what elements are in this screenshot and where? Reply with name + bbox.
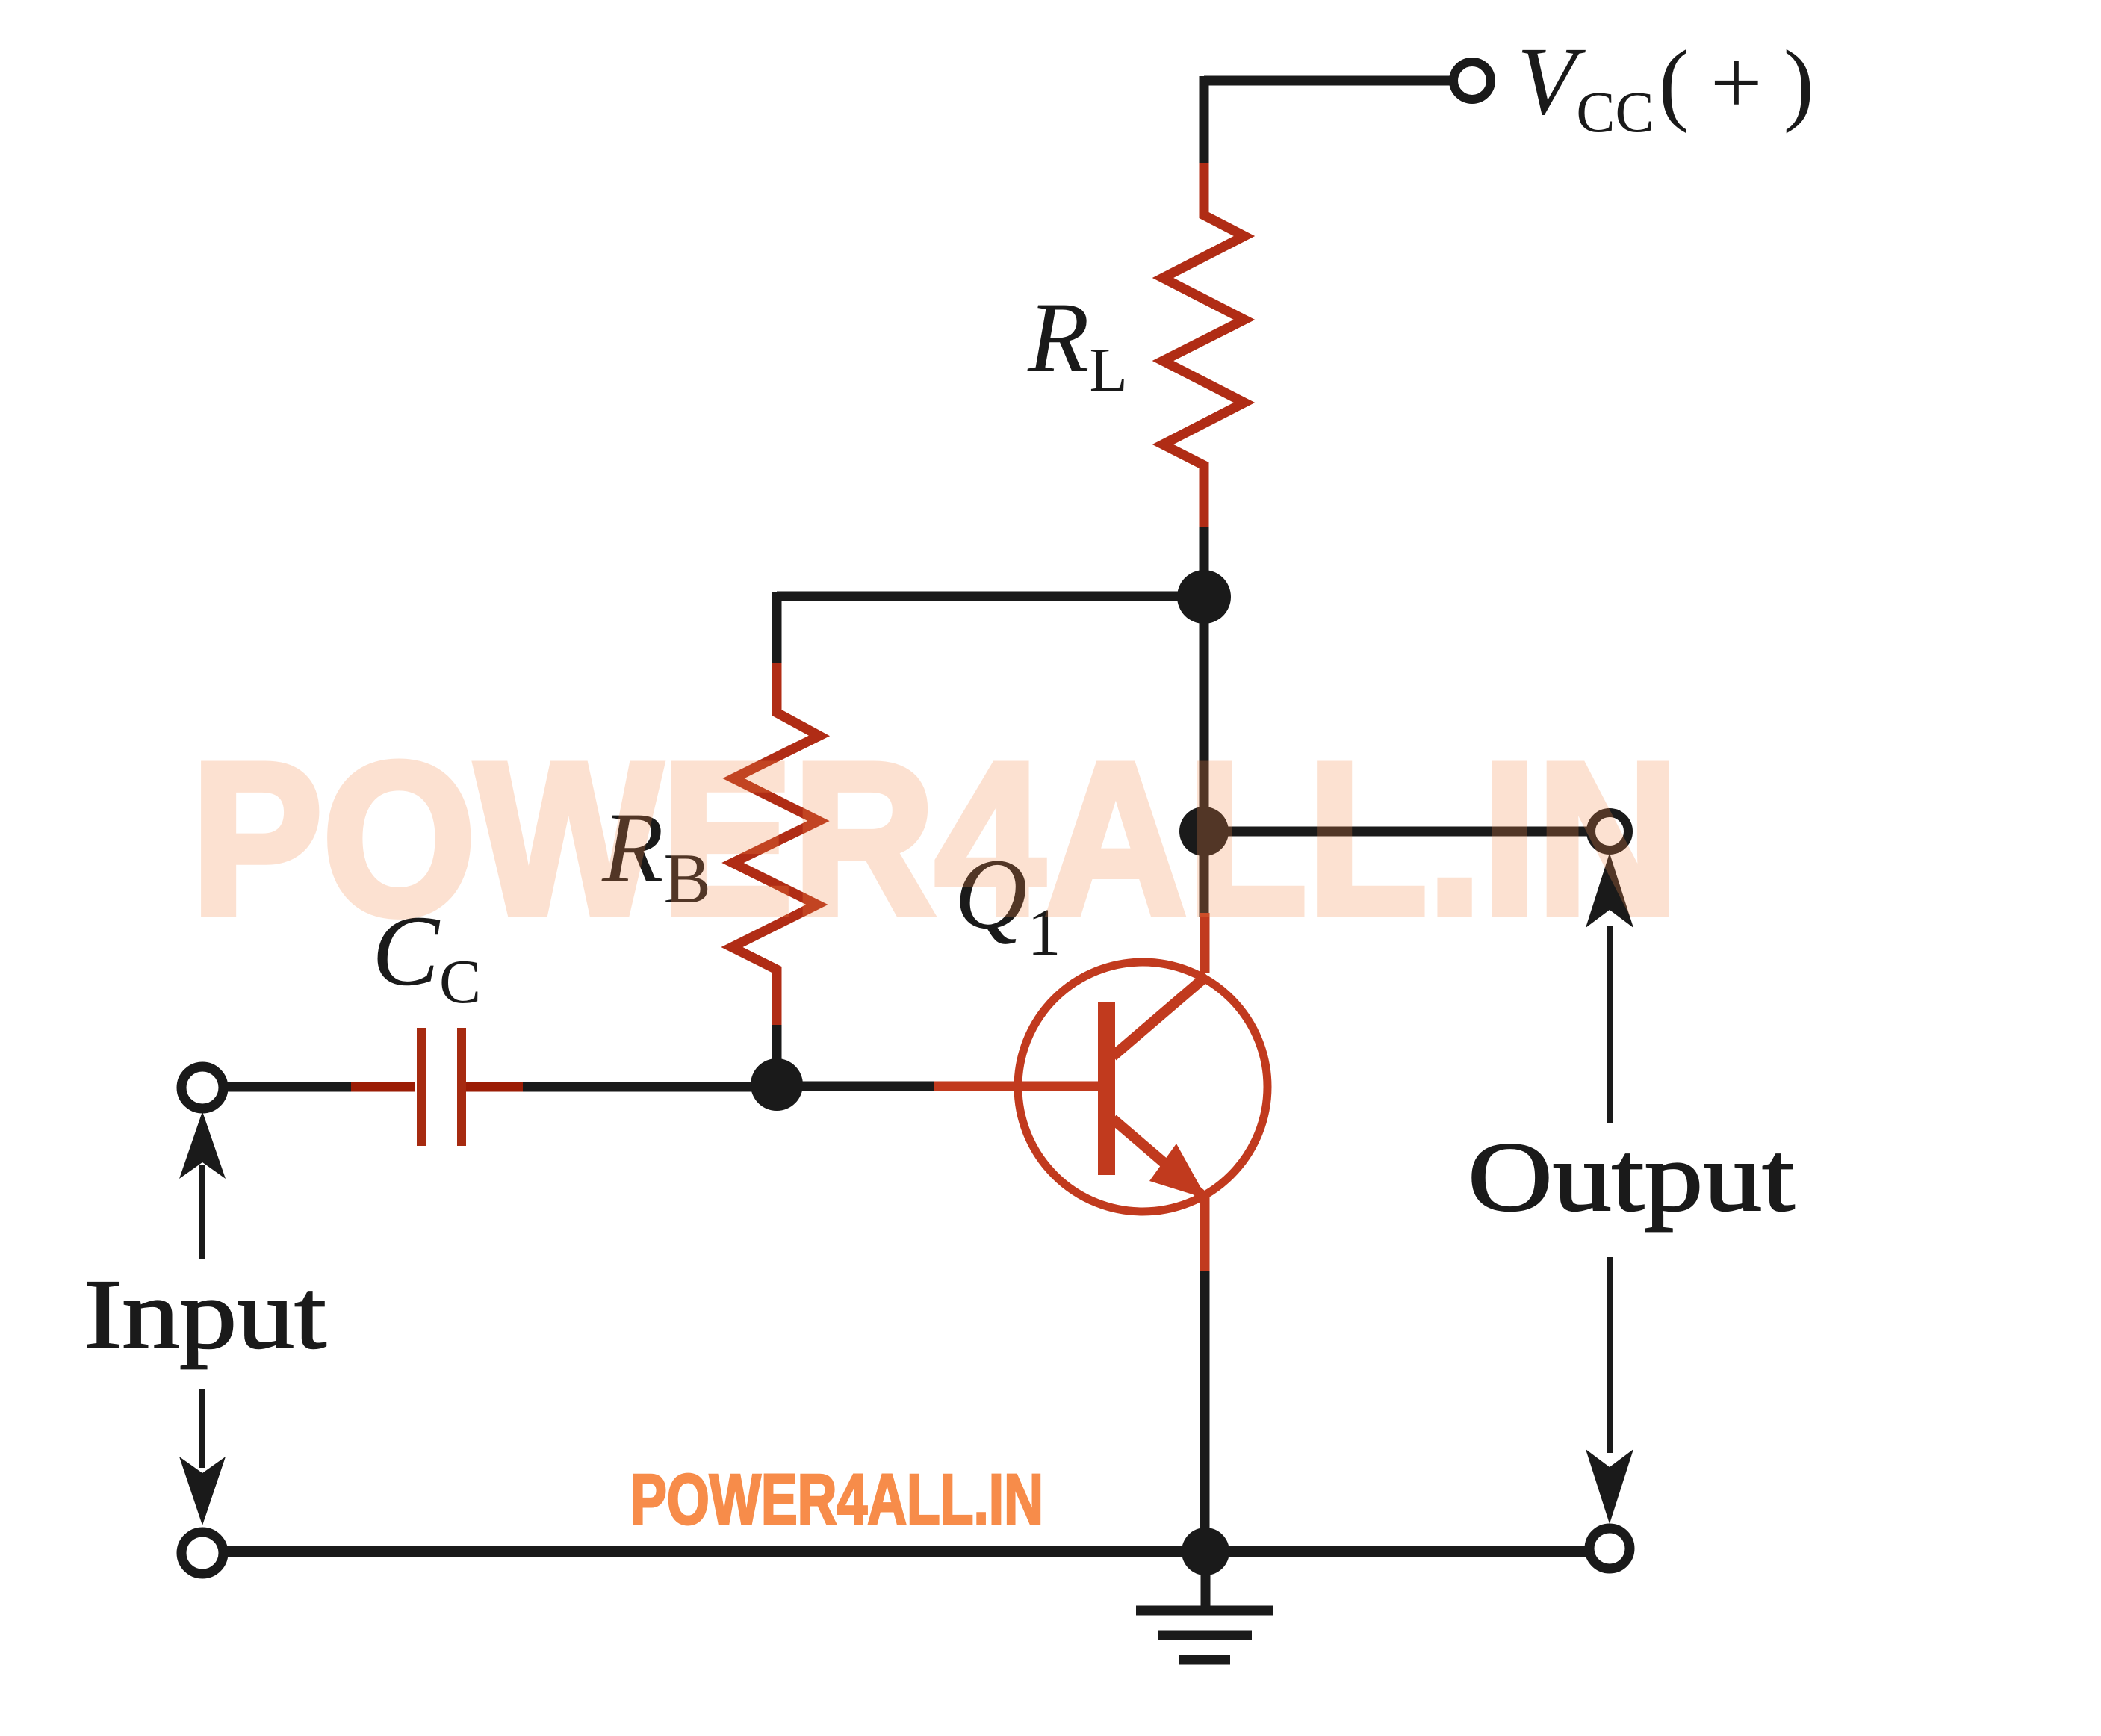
arrow output down: [1586, 1257, 1633, 1524]
svg-text:Output: Output: [1468, 1121, 1795, 1232]
svg-text:Input: Input: [84, 1259, 326, 1369]
resistor RL: [1163, 163, 1244, 532]
wire capacitor right lead (red): [466, 1082, 527, 1092]
arrow input up: [179, 1112, 226, 1259]
wire capacitor to base node (black): [523, 1082, 777, 1092]
node collector junction: [1177, 570, 1231, 624]
transistor Q1: [934, 913, 1267, 1277]
node base junction: [751, 1058, 803, 1111]
wire Vcc top horizontal: [1204, 76, 1453, 86]
terminal input top: [181, 1067, 223, 1109]
wire below RL (black): [1200, 527, 1209, 598]
arrow input down: [179, 1389, 226, 1525]
terminal output top: [1591, 813, 1628, 850]
svg-text:POWER4ALL.IN: POWER4ALL.IN: [191, 718, 1679, 960]
svg-text:POWER4ALL.IN: POWER4ALL.IN: [630, 1460, 1043, 1540]
wire output horizontal: [1204, 827, 1592, 837]
terminal input bottom: [181, 1532, 223, 1574]
wire bottom rail: [223, 1546, 1590, 1557]
node output junction: [1179, 807, 1229, 856]
wire input to capacitor (black): [223, 1082, 357, 1092]
capacitor CC: [421, 1028, 462, 1146]
wire RB top horizontal: [777, 592, 1204, 601]
wire capacitor left lead (red): [351, 1082, 415, 1092]
terminal Vcc: [1453, 62, 1491, 99]
node ground junction: [1182, 1528, 1229, 1575]
arrow output up: [1586, 853, 1633, 1123]
resistor RB: [732, 663, 819, 1029]
svg-text:VCC(+): VCC(+): [1517, 28, 1835, 144]
terminal output bottom: [1589, 1528, 1630, 1569]
wire below RB (black): [772, 1025, 782, 1085]
wire emitter down (black): [1200, 1271, 1210, 1554]
wire base node to transistor (black): [777, 1082, 938, 1091]
wire output node down (black): [1200, 831, 1209, 917]
wire collector node down to output node (black): [1200, 597, 1209, 831]
wire RB vertical top (black): [772, 592, 782, 666]
wire collector column top (black): [1200, 76, 1209, 170]
ground: [1136, 1551, 1273, 1660]
